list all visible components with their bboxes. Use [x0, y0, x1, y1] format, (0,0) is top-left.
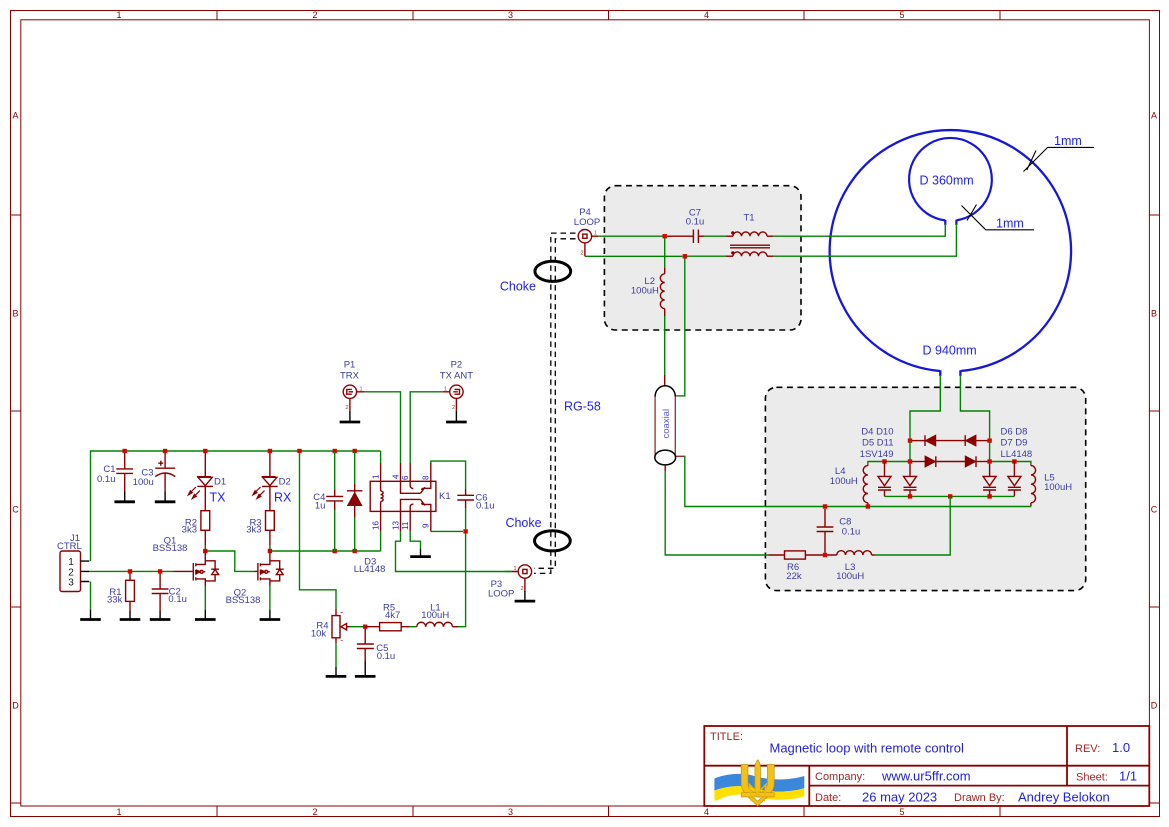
node R1 junction [128, 569, 132, 573]
resistor R3 [246, 511, 274, 551]
svg-text:1: 1 [360, 387, 363, 393]
svg-text:11: 11 [401, 521, 410, 530]
ground Q1 [195, 610, 216, 620]
resistor R5 [365, 603, 409, 631]
wire Q2 source [269, 586, 271, 610]
svg-text:Andrey Belokon: Andrey Belokon [1018, 790, 1110, 805]
svg-text:T1: T1 [743, 213, 754, 224]
wire bus corner to K1 pin1 [380, 451, 382, 463]
capacitor C2 [152, 571, 187, 611]
wire gate jog Q1 drain to Q2 gate [205, 551, 254, 571]
wire C6 junction down to L1 [458, 534, 466, 627]
svg-text:10k: 10k [311, 629, 327, 640]
varactor D 2 [904, 464, 917, 497]
svg-text:4: 4 [704, 807, 709, 817]
svg-text:22k: 22k [786, 571, 802, 582]
svg-text:100uH: 100uH [1044, 482, 1072, 493]
svg-text:P1: P1 [344, 360, 356, 371]
svg-text:Magnetic loop with remote cont: Magnetic loop with remote control [770, 741, 964, 756]
potentiometer R4 [311, 609, 350, 643]
dimension leader 1mm top [1024, 134, 1095, 172]
svg-text:C: C [1151, 505, 1158, 515]
wire L2 to coax top [664, 316, 666, 386]
wire P1 to K1 pin4 [365, 392, 401, 463]
svg-text:RG-58: RG-58 [564, 400, 601, 414]
LED D1 [188, 451, 226, 511]
wire coax center to R6 [665, 471, 768, 555]
inductor L3 [827, 551, 874, 582]
svg-text:3: 3 [508, 10, 513, 20]
node C7 L2 junction [663, 234, 667, 238]
capacitor C4 [313, 451, 343, 551]
transistor Q1 BSS138 [153, 536, 220, 587]
wire T1 secondary left to shield line [687, 255, 726, 257]
svg-text:1: 1 [116, 807, 121, 817]
svg-text:2: 2 [312, 807, 317, 817]
wire R5 to L1 [409, 626, 417, 628]
wire varactor top rail [868, 462, 1031, 465]
node C6 bottom junction [463, 529, 467, 533]
wire small loop left to T1 [773, 224, 945, 236]
svg-text:LOOP: LOOP [488, 589, 514, 600]
svg-text:LL4148: LL4148 [1001, 449, 1033, 460]
svg-text:0.1u: 0.1u [168, 594, 187, 605]
label D4 D10 group [860, 427, 894, 460]
coaxial stub [655, 386, 683, 471]
ground C1 [114, 492, 135, 502]
connector P3 LOOP [488, 565, 532, 600]
ground K1 [410, 549, 431, 557]
title block [704, 726, 1149, 806]
ground C5 [355, 661, 376, 676]
svg-text:2: 2 [346, 405, 349, 411]
capacitor C1 [97, 451, 133, 492]
wire J1 pin2 to Q1 gate [89, 570, 173, 572]
trident emblem [741, 760, 774, 806]
svg-text:D4 D10: D4 D10 [861, 427, 893, 438]
wire row link right [989, 441, 991, 462]
svg-text:D6 D8: D6 D8 [1001, 427, 1028, 438]
wire bus to R4 top [300, 453, 337, 609]
svg-text:LL4148: LL4148 [354, 564, 386, 575]
wire top supply bus [91, 451, 381, 561]
svg-text:5: 5 [899, 807, 904, 817]
node drain bus junctions [333, 549, 357, 553]
svg-text:0.1u: 0.1u [476, 501, 495, 512]
svg-text:C: C [12, 505, 19, 515]
svg-text:www.ur5ffr.com: www.ur5ffr.com [881, 769, 971, 784]
svg-text:BSS138: BSS138 [226, 595, 261, 606]
wire Q1 source [204, 586, 206, 610]
diode D4 D10 pair upper row [910, 435, 990, 446]
connector P4 LOOP [574, 207, 600, 257]
inductor L5 [1031, 464, 1072, 506]
svg-text:TRX: TRX [340, 371, 360, 382]
capacitor C3 polarized [133, 451, 176, 492]
ground J1 [80, 610, 101, 620]
svg-text:D 940mm: D 940mm [923, 344, 977, 358]
svg-text:0.1u: 0.1u [97, 474, 116, 485]
svg-text:100uH: 100uH [421, 610, 449, 621]
wire big loop right into tuning box [960, 375, 989, 438]
wire varactor bottom rail [885, 495, 1015, 497]
inductor L2 [631, 238, 665, 316]
svg-text:TX: TX [210, 491, 227, 505]
svg-text:D5 D11: D5 D11 [862, 437, 894, 448]
wire R4 wiper to junction [350, 626, 366, 628]
node bottom rail junctions [908, 494, 992, 498]
wire K1 pin8 to C6 [431, 461, 466, 489]
svg-text:2: 2 [312, 10, 317, 20]
diode D5 D11 pair lower row [910, 456, 990, 467]
svg-text:3: 3 [68, 578, 74, 589]
svg-text:D1: D1 [214, 477, 226, 488]
capacitor C7 [667, 208, 704, 244]
varactor D 3 [983, 464, 996, 497]
varactor D 4 [1008, 462, 1021, 497]
svg-text:2: 2 [521, 586, 524, 592]
svg-text:33k: 33k [107, 595, 123, 606]
svg-text:13: 13 [391, 521, 400, 530]
ground P3 [515, 591, 536, 601]
svg-text:1SV149: 1SV149 [860, 449, 894, 460]
loop small D360 [909, 138, 992, 225]
svg-text:1/1: 1/1 [1119, 769, 1137, 784]
svg-text:B: B [1151, 309, 1157, 319]
ground P2 [446, 411, 467, 422]
svg-text:5: 5 [899, 10, 904, 20]
svg-text:6: 6 [401, 475, 410, 480]
svg-text:4: 4 [391, 474, 400, 479]
node bottom rail C8 junction [823, 504, 870, 508]
wire K1 pin16 to drain bus [380, 531, 382, 551]
svg-text:100uH: 100uH [631, 286, 659, 297]
svg-text:3: 3 [508, 807, 513, 817]
svg-text:3k3: 3k3 [182, 525, 197, 536]
relay K1 [370, 463, 450, 531]
wire C7 to T1 [704, 235, 726, 237]
svg-text:LOOP: LOOP [574, 217, 600, 228]
svg-text:26 may 2023: 26 may 2023 [862, 790, 937, 805]
svg-text:K1: K1 [439, 491, 451, 502]
connector P2 TX ANT [440, 360, 473, 412]
ukraine flag logo [714, 774, 804, 801]
ground R1 [120, 611, 141, 620]
svg-text:1: 1 [444, 387, 447, 393]
svg-text:BSS138: BSS138 [153, 543, 188, 554]
wire coax shield to tuning box [683, 456, 766, 506]
svg-text:Choke: Choke [500, 280, 536, 294]
varactor D 1 [878, 462, 891, 497]
wire row link left [909, 441, 911, 462]
svg-text:Company:: Company: [815, 771, 865, 783]
svg-text:100uH: 100uH [836, 571, 864, 582]
choke lower [505, 516, 570, 551]
svg-text:Sheet:: Sheet: [1076, 772, 1108, 784]
svg-text:1mm: 1mm [996, 217, 1024, 231]
transistor Q2 BSS138 [226, 551, 284, 606]
svg-text:2: 2 [581, 251, 584, 257]
node shield junction [683, 254, 687, 258]
svg-text:4: 4 [704, 10, 709, 20]
wire small loop right to T1 secondary [773, 224, 956, 256]
svg-text:0.1u: 0.1u [377, 651, 396, 662]
wire shield junction down to coax [678, 259, 685, 396]
svg-text:Choke: Choke [505, 516, 541, 530]
svg-text:2: 2 [452, 405, 455, 411]
capacitor C5 [357, 629, 395, 662]
connector P1 TRX [340, 360, 365, 412]
wire drain bus [270, 550, 381, 552]
svg-text:D7 D9: D7 D9 [1001, 437, 1028, 448]
svg-text:TX ANT: TX ANT [440, 371, 473, 382]
svg-text:1: 1 [372, 474, 381, 479]
wire K1 pin9 to C6 bottom junction [431, 530, 463, 532]
svg-text:B: B [12, 309, 18, 319]
node Q2 drain junction [268, 549, 272, 553]
svg-text:9: 9 [422, 523, 431, 528]
node top bus junctions [123, 449, 357, 453]
wire bias feed down [875, 496, 951, 555]
label D6 D8 group [1001, 427, 1033, 460]
svg-text:1u: 1u [315, 501, 326, 512]
svg-text:0.1u: 0.1u [686, 217, 705, 228]
svg-text:REV:: REV: [1075, 743, 1100, 755]
inductor L4 [830, 464, 868, 506]
svg-text:RX: RX [274, 491, 292, 505]
svg-text:A: A [12, 111, 18, 121]
svg-text:CTRL: CTRL [57, 541, 82, 552]
svg-text:D 360mm: D 360mm [920, 174, 974, 188]
svg-text:8: 8 [422, 475, 431, 480]
svg-text:1mm: 1mm [1054, 134, 1082, 148]
wire L4 L5 bottom rail [766, 506, 1031, 508]
wire big loop left into tuning box [910, 375, 940, 438]
ground C2 [150, 611, 171, 620]
svg-text:P2: P2 [451, 360, 463, 371]
svg-text:1: 1 [514, 566, 517, 572]
wire R4 bottom [335, 643, 337, 667]
node Q1 drain junction [203, 549, 207, 553]
wire K1 pin11 to ground [410, 531, 420, 549]
capacitor C8 [817, 509, 861, 553]
node upper row junctions [908, 438, 992, 442]
diode D3 LL4148 [347, 451, 385, 575]
svg-text:D: D [1151, 701, 1158, 711]
svg-text:1: 1 [594, 231, 597, 237]
loop big D940 [830, 130, 1071, 376]
resistor R6 [769, 551, 823, 582]
svg-text:TITLE:: TITLE: [710, 731, 743, 743]
inductor L1 [417, 603, 458, 627]
svg-text:1: 1 [116, 10, 121, 20]
svg-text:100u: 100u [133, 477, 154, 488]
wire J1 pin3 down [90, 582, 92, 611]
node varactor rail junctions [882, 459, 1016, 463]
svg-text:Date:: Date: [815, 792, 841, 804]
svg-text:100uH: 100uH [830, 476, 858, 487]
svg-text:0.1u: 0.1u [842, 527, 861, 538]
svg-text:coaxial: coaxial [661, 409, 672, 439]
LED D2 [253, 451, 292, 511]
wire P4 pin2 shield line [585, 255, 683, 257]
capacitor C6 [457, 489, 494, 529]
ground Q2 [260, 610, 281, 620]
node C2 junction [158, 569, 162, 573]
svg-text:3k3: 3k3 [246, 525, 261, 536]
svg-text:A: A [1151, 111, 1157, 121]
svg-text:D: D [12, 701, 19, 711]
wire P4 pin1 line [599, 235, 663, 237]
transformer T1 [726, 213, 773, 257]
svg-text:D2: D2 [279, 477, 291, 488]
ground R4 [326, 667, 347, 676]
svg-text:4k7: 4k7 [385, 610, 400, 621]
ground C3 [155, 492, 176, 502]
wire P2 to K1 pin6 [410, 392, 442, 463]
svg-text:Drawn By:: Drawn By: [954, 792, 1005, 804]
resistor R2 [182, 511, 210, 551]
connector J1 [57, 533, 89, 592]
choke upper [500, 261, 571, 293]
resistor R1 [107, 571, 134, 611]
node C8 bottom junction [823, 553, 827, 557]
node R5 C5 junction [363, 625, 367, 629]
svg-text:1.0: 1.0 [1112, 740, 1130, 755]
dimension leader 1mm small loop [962, 205, 1035, 231]
wire RG-58 dashed cable [534, 233, 576, 573]
wire K1 pin13 to P3 [396, 531, 512, 571]
ground P1 [340, 411, 361, 422]
svg-text:16: 16 [371, 521, 380, 530]
